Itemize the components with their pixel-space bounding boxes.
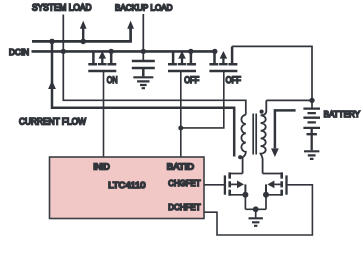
node junction rail/current-path bbox=[49, 39, 55, 45]
node junction rail/system arrow bbox=[80, 39, 86, 45]
node junction battery positive bbox=[309, 98, 314, 103]
wire DCHFET pin route to Q5 gate bbox=[204, 185, 312, 235]
wire Q4 source bbox=[230, 195, 246, 210]
transistor Q3 middle channel + body arrow bbox=[219, 55, 228, 65]
node junction Q2 right bbox=[188, 49, 193, 54]
svg-text:SYSTEM LOAD: SYSTEM LOAD bbox=[32, 2, 92, 12]
node junction Q3 left / wire end bbox=[212, 49, 217, 54]
node junction DCIN/system-load bbox=[61, 49, 66, 54]
op-amp/IC U1 LTC4110 block bbox=[50, 157, 205, 219]
transistor Q5 body arrow bbox=[274, 183, 281, 185]
wire Q4 drain to transformer primary bbox=[230, 173, 243, 175]
svg-text:CURRENT FLOW: CURRENT FLOW bbox=[19, 117, 86, 127]
wire current-flow battery arm (thick, arrow down) bbox=[275, 110, 296, 148]
node junction common source bbox=[253, 206, 259, 212]
svg-text:LTC4110: LTC4110 bbox=[108, 180, 145, 190]
wire Q3 gate drop to BATID branch bbox=[181, 71, 224, 128]
transistor Q5 channel segments bbox=[280, 172, 283, 195]
transistor Q3 gate bar bbox=[209, 70, 237, 72]
transistor Q2 gate bar bbox=[168, 70, 196, 72]
node junction Q5 source/body bbox=[263, 192, 269, 198]
transformer T1 primary winding bbox=[241, 115, 245, 174]
battery symbol bbox=[311, 100, 313, 108]
svg-text:ON: ON bbox=[107, 75, 118, 85]
svg-text:OFF: OFF bbox=[226, 75, 242, 85]
svg-text:BATTERY: BATTERY bbox=[324, 109, 361, 119]
transistor Q1 gate bar bbox=[88, 70, 116, 72]
transformer T1 secondary winding bbox=[261, 100, 267, 173]
svg-text:BATID: BATID bbox=[167, 162, 194, 172]
wire Q2 gate to BATID bbox=[180, 71, 182, 157]
node junction Q4 source/body bbox=[242, 192, 248, 198]
wire DCIN node to transformer primary bbox=[63, 51, 246, 114]
capacitor backup load bbox=[132, 61, 155, 76]
arrow up to BACKUP LOAD (rail end) bbox=[127, 21, 134, 29]
transistor Q2 (OFF) left terminal bbox=[168, 51, 177, 64]
svg-text:OFF: OFF bbox=[184, 75, 199, 85]
wire Q5 source bbox=[266, 195, 282, 210]
svg-text:DCIN: DCIN bbox=[9, 47, 29, 57]
wire DCIN input bbox=[32, 50, 215, 53]
node junction Q1 source bbox=[109, 49, 114, 54]
wire Q3 to battery positive bbox=[232, 46, 312, 98]
transistor Q2 middle channel + body arrow bbox=[178, 55, 187, 65]
transistor Q4 CHGFET gate bar bbox=[224, 175, 226, 194]
wire current-flow path from DCIN (thick, arrow up) bbox=[52, 41, 234, 156]
wire CHGFET pin to Q4 gate bbox=[204, 184, 225, 186]
svg-text:BACKUP LOAD: BACKUP LOAD bbox=[115, 2, 173, 12]
wire sources common to ground bbox=[245, 209, 266, 217]
transistor Q1 right terminal bbox=[107, 51, 116, 64]
transistor Q5 DCHFET gate bar bbox=[285, 175, 287, 194]
transistor Q4 channel segments bbox=[228, 172, 231, 195]
node polarity dot secondary bbox=[260, 110, 264, 114]
svg-text:INID: INID bbox=[93, 162, 110, 172]
transistor Q2 right terminal bbox=[187, 51, 196, 64]
svg-text:CHGFET: CHGFET bbox=[168, 178, 200, 188]
wire Q1 gate to INID bbox=[103, 71, 105, 157]
node junction backup cap bbox=[141, 49, 146, 54]
transistor Q1 middle channel + body arrow bbox=[98, 55, 107, 65]
transistor Q3 right terminal bbox=[229, 46, 238, 64]
ground common source bbox=[249, 218, 263, 226]
arrow up to SYSTEM LOAD bbox=[82, 28, 84, 41]
transformer T1 core bbox=[253, 114, 256, 155]
transistor Q4 body arrow bbox=[230, 183, 237, 185]
node junction BATID branch bbox=[178, 126, 183, 131]
node polarity dot primary bbox=[238, 155, 242, 159]
wire label-line BACKUP LOAD to cap bbox=[142, 14, 144, 61]
transistor Q3 (OFF) left terminal bbox=[209, 51, 218, 64]
svg-text:DCHFET: DCHFET bbox=[168, 202, 200, 212]
ground backup cap bbox=[133, 77, 153, 88]
wire top rail bbox=[32, 28, 131, 41]
ground battery bbox=[304, 151, 319, 159]
wire label-line SYSTEM LOAD to DCIN node bbox=[62, 15, 64, 52]
wire Q5 drain to transformer secondary bbox=[263, 173, 282, 175]
wire battery to transformer secondary bbox=[266, 99, 312, 101]
transistor Q1 input FET (ON) left terminal bbox=[88, 51, 97, 64]
